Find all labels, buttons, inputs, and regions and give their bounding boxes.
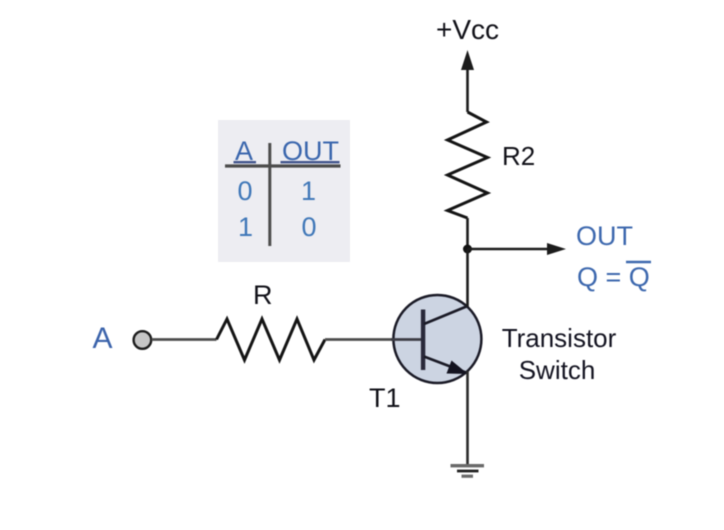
svg-text:T1: T1 xyxy=(369,383,401,413)
svg-text:Q = Q: Q = Q xyxy=(577,262,650,292)
svg-text:OUT: OUT xyxy=(576,221,633,251)
svg-text:1: 1 xyxy=(301,176,316,206)
svg-text:A: A xyxy=(93,322,113,355)
wire input A to resistor R xyxy=(152,338,217,341)
truth table header OUT xyxy=(281,136,340,166)
truth table horizontal divider xyxy=(225,164,341,167)
svg-text:1: 1 xyxy=(238,212,253,242)
resistor R2 xyxy=(448,112,488,218)
terminal A xyxy=(134,331,152,349)
node OUT junction xyxy=(463,245,472,254)
svg-text:R: R xyxy=(253,280,273,310)
label Q = Q-bar xyxy=(577,262,651,292)
transistor T1 xyxy=(391,295,481,383)
ground xyxy=(451,464,485,478)
wire resistor R to transistor base xyxy=(325,338,421,341)
label Transistor Switch xyxy=(502,323,617,385)
truth table header A xyxy=(234,136,257,166)
truth table vertical divider xyxy=(268,143,271,246)
wire collector (node to transistor) xyxy=(466,249,469,307)
truth table background xyxy=(218,120,350,262)
svg-text:+Vcc: +Vcc xyxy=(436,14,499,45)
resistor R xyxy=(217,319,326,360)
svg-text:Switch: Switch xyxy=(519,355,596,385)
wire OUT arrow xyxy=(468,243,567,255)
wire emitter to ground xyxy=(466,371,469,465)
svg-text:0: 0 xyxy=(302,212,317,242)
svg-text:Transistor: Transistor xyxy=(502,323,617,353)
svg-text:0: 0 xyxy=(238,176,253,206)
wire Vcc supply with up arrow xyxy=(461,50,474,112)
svg-text:R2: R2 xyxy=(502,141,535,171)
wire R2 to output node xyxy=(466,218,469,249)
